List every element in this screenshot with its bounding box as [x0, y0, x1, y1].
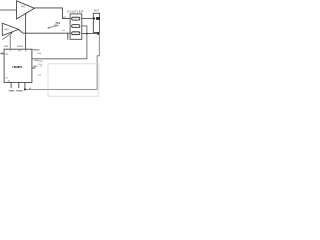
svg-text:LM4871: LM4871: [12, 65, 22, 69]
ANT switch box: [93, 13, 99, 32]
svg-text:PA1: PA1: [21, 5, 26, 8]
wire PA1 output to coupler TX port: [34, 8, 71, 19]
amplifier PA0: [2, 23, 18, 35]
wire PA0 output to coupler port: [19, 30, 71, 34]
wire coupler port3 to ANT node: [82, 33, 99, 35]
svg-text:PAEN: PAEN: [34, 48, 40, 51]
coupler winding 2: [72, 25, 80, 28]
pin name speck inside IC bottom: [8, 80, 10, 81]
pin name speck inside IC top: [18, 50, 21, 51]
wire gain control PA1: [25, 15, 27, 50]
svg-text:OUT2: OUT2: [17, 46, 24, 48]
IC bottom pin stub 1: [10, 82, 12, 88]
label left pin: [0, 52, 3, 53]
wire IC bottom pin3 stub: [24, 82, 26, 89]
wire PA1 input: [0, 9, 17, 11]
wire coupler port1 to ANT box: [82, 17, 94, 19]
faint label row 1 left of module: [38, 60, 43, 62]
pin name speck inside IC bottom left: [5, 77, 7, 78]
annotation smudge arrow: [49, 26, 56, 28]
IC right pin stub GND: [32, 67, 36, 69]
pin number speck below OUT2 pin: [25, 50, 27, 51]
switch block in ANT box: [96, 17, 100, 20]
svg-text:OUT: OUT: [4, 46, 9, 48]
faint label row 3 left of module: [38, 74, 41, 76]
junction dot feedback/port3: [86, 33, 88, 35]
svg-text:COUPLER: COUPLER: [67, 10, 84, 14]
faint label row 2 left of module: [38, 64, 42, 65]
coupler winding 1: [72, 17, 80, 20]
svg-text:GND: GND: [33, 66, 38, 68]
junction dot pin3 stub: [24, 88, 26, 90]
coupler winding 3: [72, 32, 80, 35]
amplifier PA1: [17, 1, 35, 19]
svg-text:PA0: PA0: [4, 28, 9, 31]
IC right pin stub top: [32, 49, 35, 51]
arrow into PA0: [2, 33, 11, 39]
IC controller box U1: [4, 49, 32, 82]
junction square at ANT box port: [93, 18, 95, 20]
arrowhead PA1: [25, 13, 27, 16]
svg-text:TXEN: TXEN: [8, 91, 14, 93]
faint label near coupler left: [62, 30, 65, 31]
wire ANT node down right edge: [25, 35, 99, 90]
svg-text:RXEN: RXEN: [16, 91, 22, 93]
wire stub node below output wire: [67, 33, 69, 40]
pin number speck: [29, 88, 30, 90]
junction dot ANT node: [97, 33, 99, 35]
pin name speck inside IC top left: [5, 53, 8, 54]
pin number speck below OUT1 pin: [10, 50, 11, 51]
coupler box: [70, 14, 82, 39]
svg-text:ANT: ANT: [94, 10, 99, 13]
wire coupler port2 feedback down: [32, 26, 87, 59]
IC left pin stub: [1, 53, 5, 55]
module outline rectangle: [48, 64, 99, 96]
arrowhead PA0: [11, 32, 13, 34]
IC bottom pin stub 2: [18, 82, 20, 88]
wire gain control PA0: [9, 34, 11, 49]
